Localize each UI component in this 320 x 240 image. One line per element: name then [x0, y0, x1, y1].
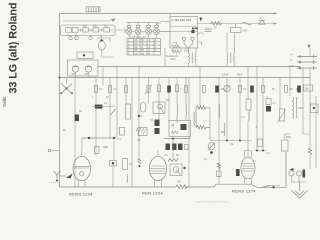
terminal circle 1 under box — [69, 36, 72, 39]
wire box inner line — [170, 26, 198, 28]
IF transformer windings 2 — [227, 53, 235, 64]
wire left rail — [59, 14, 61, 188]
grid Y input left — [49, 171, 61, 183]
small box mid — [120, 128, 125, 136]
resistor r6 — [175, 85, 182, 92]
terminal circle 2 under box — [75, 36, 78, 39]
input terminal circle — [48, 149, 59, 152]
wire verticals mid zone — [189, 66, 316, 187]
potentiometer rect right — [278, 109, 287, 123]
zigzag small above tube1 right — [103, 146, 108, 148]
junction dot padder — [83, 54, 85, 56]
capacitor dark c2 — [215, 86, 225, 93]
tap marker triangle — [199, 18, 202, 22]
lamp circle 3 — [146, 29, 152, 35]
svg-text:+U: +U — [66, 34, 69, 37]
wire arc right of box — [197, 33, 204, 36]
resistor zigzag under box — [172, 50, 180, 53]
coupling cap boxes between tubes — [110, 138, 117, 187]
svg-text:freeservicemanuals.info: freeservicemanuals.info — [196, 200, 228, 204]
resistor r7 — [184, 86, 187, 93]
wire jack links — [292, 176, 307, 182]
capacitor series A — [259, 20, 265, 24]
hatched box 50 — [136, 128, 147, 143]
wire misc top left verticals — [60, 25, 182, 67]
resistor box far right top — [282, 140, 289, 151]
wire junction y150 — [255, 150, 266, 152]
wire switch arm with arrow — [63, 19, 116, 22]
contact dark blob 1 — [166, 144, 171, 151]
speaker terminal circle 1 — [182, 37, 185, 40]
arrow antenna terminal A — [274, 12, 277, 14]
speaker terminal circle 2 — [191, 37, 194, 40]
junction bar mid left — [82, 137, 116, 139]
resistor zigzag mid 2 — [196, 126, 210, 130]
svg-text:RENS 1374: RENS 1374 — [232, 189, 256, 194]
zigzag left of tube3 — [218, 163, 221, 169]
dark zigzag cluster above tube2 right — [168, 159, 178, 162]
zigzag left of tube2 — [138, 158, 141, 167]
headphone jack circle 2 — [296, 170, 305, 178]
potentiometer near tube2 — [208, 143, 215, 154]
mains switch on rail — [262, 186, 275, 189]
resistor in chain 3 — [83, 28, 89, 32]
resistor r3 hang — [124, 86, 127, 93]
capacitor dark c3 — [250, 86, 254, 93]
contact dark blob 2 — [172, 144, 177, 151]
wire grid box to tube2 coupler — [172, 139, 174, 158]
tube V2 — [149, 150, 166, 187]
svg-text:100: 100 — [83, 25, 88, 28]
headphone jack circle 1 — [289, 168, 294, 176]
tuning coil box — [68, 60, 99, 76]
svg-text:2000: 2000 — [298, 107, 304, 110]
svg-text:REN 1204: REN 1204 — [142, 191, 163, 196]
wire bottom right horizontals — [267, 134, 310, 186]
svg-text:1000: 1000 — [286, 136, 292, 139]
terminal circle 3 — [89, 36, 92, 39]
capacitor box on line — [231, 24, 248, 33]
svg-text:250: 250 — [177, 181, 182, 184]
resistor r2 hang — [108, 86, 116, 93]
wire bottom rail — [60, 151, 287, 187]
svg-text:RENS 1204: RENS 1204 — [69, 192, 93, 197]
lamp circle 1 — [126, 29, 132, 35]
contact dark blob 3 — [178, 144, 183, 151]
dark comp on left rail area — [75, 115, 79, 122]
coupling blob — [92, 102, 115, 109]
svg-text:33 LG (alt) Roland: 33 LG (alt) Roland — [8, 3, 20, 94]
speaker cone — [184, 40, 193, 48]
battery tap stub 2 — [297, 60, 317, 64]
potentiometer circle p1 — [224, 85, 230, 91]
svg-text:100: 100 — [221, 131, 226, 134]
wire right column drops — [303, 48, 310, 169]
svg-text:100pF: 100pF — [222, 74, 229, 77]
meter box with pointer — [153, 102, 165, 114]
capacitor dark pair 2 — [155, 128, 160, 134]
wire winding feeds — [189, 33, 235, 67]
resistor spring 2 — [185, 102, 188, 120]
battery tap stub 3 — [297, 66, 317, 70]
capacitor stack 0.1 — [266, 99, 276, 112]
svg-text:0 110 150 220: 0 110 150 220 — [172, 18, 192, 22]
resistor hatched on top rail — [86, 7, 100, 12]
wire lamp bracket — [127, 21, 164, 26]
output choke coil — [293, 97, 304, 118]
coil symbol 2 — [85, 66, 91, 72]
mains transformer box — [170, 17, 198, 49]
svg-text:150: 150 — [243, 30, 248, 33]
terminal label box right — [296, 85, 313, 91]
resistor zigzag on line — [211, 22, 221, 26]
svg-text:100: 100 — [93, 25, 98, 28]
coil spring lower — [223, 123, 226, 136]
wire coil box feed — [76, 59, 104, 86]
label lamp tags — [127, 25, 131, 27]
wire mid rail lower — [60, 77, 311, 79]
switch diagonal — [110, 109, 116, 116]
resistor r1 hang — [94, 86, 102, 93]
wire verticals from lower rail left zone — [75, 66, 186, 187]
lamp circle 2 — [135, 29, 141, 35]
wire rectifier down — [102, 50, 114, 57]
resistor tall mid — [126, 104, 131, 119]
filament chain box — [61, 25, 116, 36]
battery tap stub 1 — [297, 55, 317, 59]
junction dark square — [191, 30, 194, 33]
small af coil left — [126, 174, 129, 183]
resistor in chain 5 — [104, 28, 110, 32]
earth ground V — [292, 182, 308, 198]
svg-text:100: 100 — [104, 25, 109, 28]
svg-text:Seibt: Seibt — [2, 96, 7, 107]
table of voltages — [127, 36, 161, 56]
resistor in chain 1 — [66, 28, 72, 33]
resistor zigzag on right rail — [308, 148, 312, 155]
svg-text:a Ua Ug Ig mA: a Ua Ug Ig mA — [130, 36, 146, 39]
wire stub left of box — [164, 21, 171, 23]
resistor tall between tubes — [123, 159, 133, 170]
small rect above tube1 right — [95, 147, 100, 154]
tube V1 — [73, 138, 91, 187]
resistor r10 — [238, 86, 247, 93]
resistor in chain 2 — [72, 28, 78, 33]
wire rectifier hooks — [97, 36, 110, 42]
capacitor dark c4 — [297, 86, 301, 93]
wire box drop — [169, 14, 171, 17]
resistor zigzag mid 1 — [196, 106, 210, 128]
svg-text:+100: +100 — [288, 65, 294, 68]
capacitor dark pair 1 — [155, 120, 160, 127]
wire lamps to table — [115, 29, 157, 39]
coil symbol 1 — [72, 66, 78, 72]
resistor r11 — [261, 86, 264, 93]
wire anode rail mid — [210, 140, 252, 142]
antenna change-over switch — [59, 77, 73, 95]
resistor in chain 4 — [93, 28, 99, 32]
wire lamp chain — [125, 31, 170, 33]
coil vertical mid2 — [218, 105, 221, 119]
rectifier valve oval — [98, 41, 105, 51]
svg-text:2000: 2000 — [184, 50, 190, 53]
arrow mark above taps — [307, 45, 310, 48]
svg-text:220V: 220V — [170, 58, 176, 61]
wire second top line — [198, 23, 277, 25]
resistor zigzag inside box — [172, 45, 180, 48]
lamp circle 4 — [154, 29, 160, 35]
wire mid rail upper — [98, 66, 300, 68]
potentiometer r4 — [145, 85, 152, 95]
padder box above coil box — [77, 52, 93, 59]
wire top rail — [60, 13, 277, 15]
coupling unit right of tube2 — [170, 164, 186, 176]
resistor r12 — [284, 86, 293, 93]
resistor r5 — [157, 85, 160, 92]
wire chain links — [78, 29, 113, 32]
capacitor small box left of tube3 — [258, 139, 263, 147]
wire bar under grid box — [164, 138, 191, 140]
resistor spring 1 — [176, 102, 179, 123]
capacitor dark left of tube3 — [236, 169, 240, 176]
box with circle top mid — [138, 103, 146, 118]
tube V3 — [241, 151, 255, 185]
svg-text:100: 100 — [289, 88, 294, 91]
grid cap arrow tube1 — [60, 174, 73, 179]
capacitor plates mark — [205, 28, 212, 32]
fuse zigzag on bottom rail — [176, 185, 187, 189]
svg-text:50pF: 50pF — [237, 74, 243, 77]
rectifier anode dot — [100, 39, 102, 41]
grid box right — [169, 121, 191, 137]
coil boxed right — [246, 99, 251, 122]
wire right links — [285, 134, 290, 140]
wire box hooks — [173, 42, 202, 45]
capacitor small on line — [242, 22, 252, 25]
IF transformer windings 1 — [189, 53, 197, 64]
svg-text:204: 204 — [305, 88, 310, 91]
resistor r9 — [202, 86, 205, 93]
coil vertical small — [194, 112, 195, 126]
capacitor dark c1 — [167, 86, 171, 93]
dark marks under small box — [192, 28, 194, 30]
wire line through box — [161, 31, 198, 33]
terminal small box far right — [311, 104, 319, 113]
comp left of tube3 — [217, 171, 222, 177]
arrow earth terminal E — [274, 22, 277, 24]
